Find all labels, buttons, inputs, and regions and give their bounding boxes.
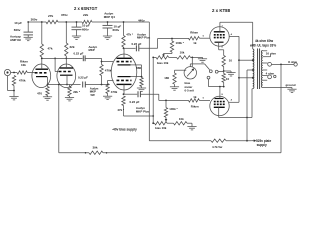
- resistor 470k input: [12, 76, 26, 86]
- meter bias 0-5mA: [184, 67, 196, 79]
- capacitor 0.22uF bottom: [124, 91, 141, 104]
- label Auricap AMP: [10, 35, 21, 42]
- V1a cathode lead: [47, 77, 49, 86]
- switch contact C: [207, 76, 224, 87]
- V1a plate lead: [41, 58, 43, 69]
- svg-text:470k: 470k: [105, 69, 112, 73]
- svg-text:5W: 5W: [91, 93, 96, 97]
- resistor 470 cathode: [37, 85, 49, 97]
- svg-text:Riken: Riken: [190, 31, 198, 35]
- KT88 top control grid: [214, 37, 225, 39]
- KT88 bottom cathode bar: [215, 98, 224, 100]
- svg-text:10 µF: 10 µF: [14, 21, 22, 25]
- resistor 680 cathode: [136, 66, 143, 88]
- tap 8 ohm terminal: [263, 60, 298, 66]
- svg-text:0.22 µF: 0.22 µF: [78, 76, 88, 80]
- screen bus: [238, 36, 240, 102]
- node cathode mid: [223, 70, 231, 73]
- V2 cathode wires: [131, 65, 143, 78]
- svg-text:600v: 600v: [82, 27, 89, 31]
- svg-text:bias 10k: bias 10k: [155, 126, 167, 130]
- svg-text:440v: 440v: [138, 19, 145, 23]
- ground bias bottom: [187, 127, 196, 130]
- V1a grid: [35, 72, 47, 74]
- wire feedback tap: [58, 84, 60, 153]
- label 525v plate supply: [256, 139, 271, 147]
- svg-text:4.7k 5w: 4.7k 5w: [212, 145, 223, 149]
- transformer core: [258, 49, 260, 90]
- ground 680: [137, 88, 146, 91]
- wire cap to 470k: [85, 84, 108, 86]
- svg-text:with UL taps 33%: with UL taps 33%: [249, 43, 276, 47]
- wire bottom coupling: [140, 94, 188, 101]
- KT88 top plate bar: [214, 31, 225, 33]
- svg-text:4k ohm 60w: 4k ohm 60w: [255, 39, 274, 43]
- label Audyn MKP plate cap: [89, 45, 98, 52]
- V2a plate lead: [123, 48, 125, 58]
- svg-text:47k: 47k: [48, 47, 53, 51]
- tap 16 ohm: [263, 52, 277, 57]
- label -40v bias supply: [112, 128, 137, 132]
- wire cathode bus: [48, 84, 81, 86]
- svg-text:10: 10: [229, 59, 233, 63]
- V1b cathode bar: [60, 74, 73, 76]
- svg-text:100k *: 100k *: [169, 107, 178, 111]
- svg-text:2 x KT88: 2 x KT88: [212, 8, 231, 13]
- svg-text:39k: 39k: [93, 146, 98, 150]
- triode V1a: [32, 64, 51, 88]
- UL tap 2 wire: [239, 77, 253, 79]
- ground left cap: [24, 37, 33, 40]
- svg-text:470: 470: [37, 92, 42, 96]
- UL tap 1 wire: [239, 59, 253, 61]
- svg-text:470k: 470k: [19, 79, 26, 83]
- wire feedback bottom: [59, 152, 89, 154]
- label Audyn MKP fb: [90, 86, 99, 96]
- wire B+ rail segment: [28, 21, 46, 23]
- resistor 10 top: [222, 56, 232, 72]
- wire 525v line: [149, 140, 211, 142]
- V2a grid: [117, 61, 132, 63]
- ground meter shunt: [170, 87, 179, 90]
- wire feedback right: [280, 64, 282, 152]
- KT88 top cathode lead: [219, 42, 224, 55]
- ground secondary: [287, 89, 296, 92]
- resistor 1k bottom grid stopper: [189, 95, 211, 108]
- V2b grid: [117, 79, 132, 81]
- label with UL taps 33%: [249, 43, 276, 47]
- KT88 top cathode bar: [215, 41, 224, 43]
- input jack: [4, 69, 10, 75]
- KT88 top tube: [210, 27, 229, 46]
- resistor 39k feedback: [85, 146, 108, 155]
- resistor 180 meter shunt: [164, 70, 186, 87]
- svg-text:1k: 1k: [193, 95, 197, 99]
- svg-text:AMP Oil: AMP Oil: [10, 38, 21, 42]
- ground input: [9, 97, 18, 100]
- pot bias 10k top: [152, 56, 168, 65]
- node 300v: [31, 18, 38, 22]
- V1a plate bar: [36, 68, 49, 70]
- KT88 bottom cathode lead: [219, 87, 221, 99]
- transformer secondary winding: [261, 51, 262, 88]
- wire 440v vertical: [148, 22, 150, 141]
- ground 22k*: [65, 98, 74, 101]
- svg-text:22k: 22k: [83, 13, 88, 17]
- svg-text:600v: 600v: [113, 28, 120, 32]
- wire driver grid: [102, 61, 114, 63]
- svg-text:10k: 10k: [21, 63, 26, 67]
- svg-text:2 x 6SN7GT: 2 x 6SN7GT: [74, 6, 98, 11]
- tap 0 ground: [263, 83, 296, 89]
- wire top coupling: [139, 38, 189, 49]
- arrow 525v plate supply: [251, 139, 256, 142]
- tap 4 ohm terminal: [263, 71, 276, 78]
- wire B+ rail segment 3: [92, 21, 149, 23]
- svg-text:47k *: 47k *: [117, 108, 125, 112]
- wire 10k2 to ground: [187, 123, 192, 126]
- label bias meter: [185, 81, 196, 93]
- KT88 bottom plate lead: [219, 89, 253, 119]
- svg-text:100k *: 100k *: [176, 41, 185, 45]
- svg-text:0-5 mA: 0-5 mA: [185, 89, 196, 93]
- V2b plate bar: [117, 83, 132, 85]
- wire pot to meter: [190, 57, 204, 67]
- node 440v: [138, 19, 145, 23]
- KT88 top screen lead: [229, 35, 239, 37]
- wiper arrow bottom pot: [165, 117, 168, 121]
- transformer CT tap: [247, 69, 254, 141]
- svg-text:ground: ground: [286, 83, 296, 87]
- tap secondary top stub: [263, 50, 268, 52]
- svg-text:MKP Plus: MKP Plus: [136, 110, 150, 114]
- V1b plate lead: [65, 58, 67, 69]
- ground mid cap2: [103, 36, 112, 39]
- KT88 bottom screen lead: [229, 101, 239, 103]
- V2b grid wire: [108, 80, 114, 83]
- wire plate node 2: [85, 58, 101, 61]
- resistor 47k* lower: [117, 96, 125, 116]
- resistor 10k input: [17, 59, 28, 74]
- V1b cathode lead: [66, 75, 68, 85]
- svg-text:27k: 27k: [48, 14, 53, 18]
- wire to grid V1: [27, 72, 34, 74]
- svg-text:0.22 µF: 0.22 µF: [74, 51, 84, 55]
- svg-text:-40v bias supply: -40v bias supply: [112, 128, 137, 132]
- resistor 4.7k 5w: [211, 139, 226, 149]
- svg-text:bias 10k: bias 10k: [157, 61, 169, 65]
- svg-text:680: 680: [136, 66, 141, 70]
- resistor 100k* bottom: [164, 100, 178, 117]
- resistor 47k* upper plate load: [122, 21, 134, 49]
- V1b plate bar: [60, 67, 74, 69]
- svg-text:8 ohm: 8 ohm: [288, 60, 297, 64]
- resistor 10k top: [169, 50, 191, 59]
- svg-text:22k *: 22k *: [73, 90, 81, 94]
- title label 2 x KT88: [212, 8, 231, 13]
- svg-text:MKP Q4: MKP Q4: [104, 15, 115, 19]
- capacitor 0.22uF top: [124, 42, 142, 51]
- label 4k ohm 60w: [255, 39, 274, 43]
- V1a cathode bar: [36, 76, 47, 78]
- svg-text:supply: supply: [257, 143, 267, 147]
- resistor 47k V1a plate load: [40, 21, 53, 58]
- ground 470: [43, 97, 52, 100]
- triode V1b: [57, 64, 76, 88]
- svg-text:470k: 470k: [111, 90, 118, 94]
- resistor 22k* cathode: [68, 85, 81, 98]
- switch lever: [205, 64, 210, 70]
- switch contact B: [215, 70, 223, 73]
- pin labels top KT88: [203, 26, 233, 49]
- ground cathode mid: [226, 73, 235, 76]
- ground mid cap1: [72, 36, 81, 39]
- svg-text:22k: 22k: [70, 45, 75, 49]
- V2b cathode bar: [118, 76, 131, 78]
- V2a cathode bar: [118, 64, 131, 66]
- V2b plate lead: [123, 84, 125, 95]
- pot bias 10k bottom: [152, 122, 167, 131]
- svg-text:16 ohm: 16 ohm: [266, 52, 277, 56]
- pin labels bottom KT88: [203, 94, 233, 101]
- svg-text:MKP Plus: MKP Plus: [137, 36, 151, 40]
- resistor 470k driver grid: [100, 61, 112, 85]
- svg-text:1k: 1k: [193, 41, 197, 45]
- svg-text:10k: 10k: [180, 50, 185, 54]
- label Audyn MKP Plus top: [137, 32, 151, 39]
- resistor 22k rail: [82, 13, 92, 24]
- switch contact A: [209, 70, 212, 73]
- label Audyn MKP Q4: [104, 12, 115, 19]
- wire feedback bottom 2: [103, 152, 281, 154]
- label Audyn MKP Plus bottom: [136, 106, 150, 114]
- svg-text:MKP: MKP: [89, 48, 95, 52]
- resistor 470k V2b grid leak: [106, 84, 118, 97]
- wire input: [11, 72, 17, 74]
- svg-text:47k *: 47k *: [126, 32, 134, 36]
- svg-text:10k: 10k: [179, 117, 184, 121]
- V1b grid coupling: [54, 58, 59, 72]
- resistor 22k V1b plate load: [65, 21, 75, 58]
- svg-text:0.22 µF: 0.22 µF: [130, 100, 140, 104]
- resistor 10k bottom: [167, 117, 187, 125]
- svg-text:600v: 600v: [14, 28, 21, 32]
- V2a plate bar: [117, 57, 132, 59]
- KT88 top screen grid: [214, 34, 225, 36]
- svg-text:180: 180: [164, 76, 169, 80]
- wire plate node: [41, 58, 83, 60]
- ground 10k top: [198, 57, 207, 62]
- svg-text:4 ohm: 4 ohm: [266, 71, 275, 75]
- resistor 27k: [46, 14, 58, 24]
- transformer primary winding: [253, 22, 254, 88]
- capacitor 10uF 600v mid1: [72, 21, 90, 36]
- svg-text:Riken: Riken: [191, 105, 199, 109]
- resistor 100k* top: [164, 39, 185, 54]
- capacitor 10uF 600v left: [14, 21, 33, 37]
- capacitor 0.22uF plate out: [74, 51, 86, 61]
- wire jack sleeve: [8, 76, 15, 97]
- svg-text:370v: 370v: [61, 13, 68, 17]
- ground V2b grid: [103, 96, 112, 99]
- bias rail vertical: [152, 57, 154, 123]
- wire 525v line 2: [226, 140, 251, 142]
- driver tube envelope V2: [111, 54, 137, 90]
- svg-text:300v: 300v: [31, 18, 38, 22]
- KT88 bottom control grid: [214, 103, 225, 105]
- svg-text:0.22 µF: 0.22 µF: [132, 42, 142, 46]
- V1b grid: [59, 71, 72, 73]
- title label 2 x 6SN7GT: [74, 6, 98, 11]
- tap secondary stub 80: [263, 79, 268, 81]
- KT88 bottom tube: [210, 96, 229, 115]
- resistor 1k top grid stopper: [189, 31, 211, 46]
- resistor 10 bottom: [222, 71, 230, 88]
- KT88 top plate lead: [220, 22, 253, 32]
- wiper arrow top pot: [162, 54, 165, 58]
- node 370v: [61, 13, 68, 17]
- wire 47k to bias rail: [124, 115, 155, 117]
- transformer UL tap dots: [252, 59, 254, 78]
- KT88 bottom screen grid: [214, 101, 225, 103]
- capacitor 0.22uF feedback: [78, 76, 88, 88]
- tap secondary mid stub: [263, 69, 268, 71]
- capacitor 10uF 600v mid2: [103, 21, 122, 36]
- KT88 bottom plate bar: [214, 106, 225, 108]
- wire B+ rail segment 2: [58, 21, 82, 23]
- svg-text:10: 10: [226, 77, 230, 81]
